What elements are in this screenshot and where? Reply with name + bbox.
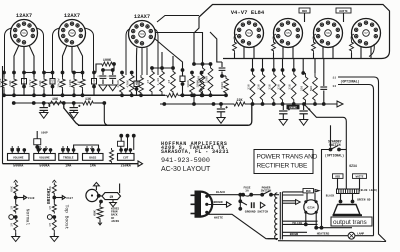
wire 22K rail right (247, 103, 337, 105)
wire switch to transformer (271, 194, 279, 196)
potentiometer TREBLE (59, 148, 78, 160)
svg-text:V4: V4 (247, 32, 251, 35)
ground cap b (109, 85, 117, 91)
wire standby right leg (339, 149, 346, 151)
capacitor electrolytic 16uF b (73, 103, 75, 107)
wire V5 plate lead (273, 53, 275, 59)
wire GZ34 feed diagonal (304, 104, 343, 117)
wire tube pin drop slant left (14, 46, 19, 73)
svg-text:GZ34: GZ34 (307, 207, 314, 210)
capacitor electrolytic 16uF c (220, 104, 222, 108)
wire ac vertical link (239, 195, 241, 209)
resistor 68K vib bold (97, 205, 103, 221)
wire bus2 link (64, 102, 81, 104)
svg-text:(OPTIONAL): (OPTIONAL) (325, 154, 344, 158)
wire 220K top link (194, 63, 211, 65)
svg-text:330: 330 (256, 84, 260, 90)
wire run RED to rectifier (282, 191, 303, 193)
ground vib jack up arrow (93, 182, 99, 186)
wire heater bus labeled (282, 235, 374, 237)
svg-text:100P: 100P (41, 132, 48, 135)
capacitor right (323, 59, 325, 87)
resistor grid 68K (14, 183, 18, 196)
svg-text:LAMP: LAMP (357, 232, 364, 235)
svg-text:10K: 10K (52, 98, 59, 102)
arrow pot feed (66, 148, 69, 150)
wire tube left hook (5, 28, 13, 73)
resistor 1M/2 (33, 73, 35, 78)
tube V2 12AX7 socket (59, 20, 86, 47)
wire V3 plate feed (156, 33, 203, 65)
potentiometer VOLUME normal (8, 148, 30, 160)
wire cut drops (120, 136, 122, 141)
node col6 top (51, 71, 55, 75)
node cut a (119, 134, 123, 138)
wire tube pin drop mid (71, 47, 73, 73)
resistor 330 screen (272, 68, 276, 72)
node 22K b (302, 102, 306, 106)
svg-text:500KA: 500KA (13, 165, 24, 169)
svg-text:330: 330 (299, 86, 303, 92)
svg-text:1M: 1M (48, 206, 52, 210)
node col5 bus (42, 93, 46, 97)
svg-text:1.5K: 1.5K (135, 81, 139, 89)
node enclosure lead (192, 62, 196, 66)
node bus2 d (62, 101, 66, 105)
resistor 330 right (303, 73, 308, 104)
resistor 470K (129, 73, 134, 96)
resistor 1.5K V3 (139, 75, 144, 95)
resistor 330 screen (281, 68, 285, 72)
wire tube pin drop slant right (29, 46, 34, 73)
jack tip contact (47, 215, 52, 220)
resistor grid stopper V6 (312, 40, 316, 53)
arrow feed to output (337, 101, 343, 107)
wire vib tip link (98, 195, 102, 198)
tube V6 EL84 socket (314, 19, 343, 48)
svg-text:820: 820 (23, 78, 26, 83)
svg-text:V4-V7 EL84: V4-V7 EL84 (231, 9, 265, 16)
wire V3 to box corner (157, 16, 199, 23)
wire link col pair b (44, 72, 53, 74)
capacitor electrolytic 16uF d (282, 104, 284, 110)
node ac a (238, 193, 242, 197)
node jack mid (14, 196, 18, 200)
label box WHITE bottom (353, 174, 367, 179)
wire vib drop (100, 202, 101, 206)
resistor 1M mixer a (150, 68, 155, 95)
wire jack gnd lead (53, 233, 55, 237)
node col8 bus (72, 93, 76, 97)
svg-text:250KA: 250KA (121, 165, 132, 169)
wire bright cap leads (36, 131, 38, 139)
resistor 330 screen (251, 68, 255, 72)
wire enclosure left lead (194, 17, 199, 64)
resistor 1M upper (14, 203, 18, 214)
svg-text:#137: #137 (66, 197, 73, 200)
node col7 bus (61, 93, 65, 97)
svg-text:12AX7: 12AX7 (134, 14, 150, 20)
wire mixer riser a (161, 52, 163, 68)
node heater a (314, 226, 318, 230)
svg-text:GREEN BD: GREEN BD (357, 199, 371, 202)
capacitor .1 col (102, 70, 104, 75)
svg-text:GROUND SWITCH: GROUND SWITCH (245, 211, 269, 214)
resistor 1M/2W (3, 73, 5, 78)
ground ecap e (299, 120, 307, 126)
resistor 1M (82, 73, 84, 78)
resistor 47K horiz (165, 93, 180, 97)
svg-text:68K: 68K (8, 80, 12, 86)
wire standby left leg (322, 150, 331, 184)
node 22K a (162, 102, 166, 106)
capacitor .1 col b (112, 70, 114, 75)
resistor grid stopper V7 (350, 40, 354, 53)
resistor 1M upper (52, 203, 56, 214)
capacitor .022 mid (182, 70, 184, 76)
potentiometer CUT (118, 148, 135, 160)
svg-text:.022: .022 (93, 78, 96, 85)
svg-text:500KA: 500KA (39, 165, 50, 169)
arrow pot feed (11, 148, 14, 150)
resistor 100K b (199, 73, 204, 96)
svg-text:BASS: BASS (89, 157, 96, 160)
svg-text:68K: 68K (48, 186, 52, 192)
svg-text:HEATERS: HEATERS (317, 232, 330, 235)
arrow red gz34 (315, 190, 319, 193)
node col4 top (32, 71, 36, 75)
svg-text:1M: 1M (146, 80, 150, 84)
svg-text:VOLUME: VOLUME (13, 157, 24, 160)
svg-text:1M: 1M (48, 223, 52, 227)
svg-text:100K: 100K (186, 80, 190, 88)
arrow pot feed (90, 148, 93, 150)
wire gz34 left leg to yellow (305, 212, 307, 224)
svg-text:1.8K: 1.8K (156, 78, 160, 86)
resistor 22K supply c (232, 102, 247, 106)
wire V3 left hook (126, 29, 130, 75)
node bus2 c (42, 101, 46, 105)
node jack mid (52, 196, 56, 200)
capacitor .022 (93, 73, 95, 79)
capacitor electrolytic 16uF a (43, 103, 45, 107)
node bus2 a (12, 101, 16, 105)
resistor cut series (110, 148, 114, 164)
wire screen feed stub (282, 59, 284, 71)
wire ac white run (209, 214, 279, 238)
svg-text:VOLUME: VOLUME (39, 157, 50, 160)
node bus2 e (72, 101, 76, 105)
arrow brown (227, 202, 232, 207)
node col9 top (81, 71, 85, 75)
wire 100K right drop (103, 64, 114, 70)
ground ecap a (40, 113, 48, 119)
wire treble-bass elbow (74, 145, 99, 150)
tube V1 12AX7 socket (11, 20, 38, 47)
svg-text:(OPTIONAL): (OPTIONAL) (340, 80, 359, 84)
svg-text:1M: 1M (167, 80, 171, 84)
node right col a (301, 71, 305, 75)
connector AC inlet (195, 191, 214, 218)
wire screen feed stub (262, 59, 264, 71)
node bus2 corner (102, 101, 106, 105)
svg-text:#138: #138 (28, 197, 35, 200)
wire right cols top (302, 59, 304, 74)
wire jack tap (53, 196, 55, 203)
wire white box drop (359, 178, 361, 189)
wire screen feed stub (293, 59, 295, 71)
node ot a (339, 200, 343, 204)
svg-text:50K: 50K (309, 86, 313, 92)
svg-text:220K: 220K (204, 76, 208, 84)
svg-text:1MA: 1MA (65, 165, 72, 169)
tube V4 EL84 socket (235, 19, 264, 48)
jack tip contact (9, 215, 14, 220)
wire box to phase cap (210, 32, 222, 62)
svg-text:1M/2W: 1M/2W (0, 78, 2, 87)
svg-text:RED: RED (335, 175, 340, 178)
wire tube left hook (53, 28, 61, 73)
tube V3 12AX7 socket (129, 21, 156, 48)
node yellow join (304, 223, 308, 227)
wire V3 right hook (154, 29, 158, 75)
wire ac brown stub (209, 204, 227, 206)
capacitor ground switch (251, 202, 253, 208)
resistor 1M/2W (62, 73, 64, 78)
label box RED gz34 (303, 189, 314, 193)
ground ecap b (70, 113, 78, 119)
label box RED above V6 (299, 8, 310, 13)
wire optional lower run (338, 85, 374, 236)
wire fuse to switch (251, 194, 262, 196)
svg-text:.1: .1 (106, 75, 110, 79)
node ac b (238, 199, 242, 203)
svg-text:BROWN: BROWN (290, 233, 299, 236)
wire bus3 riser (64, 103, 79, 125)
svg-text:.022: .022 (52, 78, 55, 85)
jack vib channel (86, 189, 98, 201)
wire GZ34 feed corner (343, 117, 346, 190)
svg-text:V3: V3 (140, 33, 144, 36)
svg-text:V2: V2 (70, 32, 74, 35)
node cut b (126, 134, 130, 138)
svg-text:1M: 1M (10, 223, 14, 227)
resistor 1M lower (14, 217, 18, 233)
arrow ground switch (260, 202, 265, 208)
resistor 1M lower (52, 217, 56, 233)
svg-text:330: 330 (246, 84, 250, 90)
svg-text:V6: V6 (326, 32, 330, 35)
svg-text:SARASOTA, FL - 34231: SARASOTA, FL - 34231 (161, 149, 229, 155)
svg-text:330: 330 (276, 84, 280, 90)
svg-text:12AX7: 12AX7 (64, 13, 80, 19)
resistor 13K supply b (81, 101, 95, 105)
svg-text:941-923-5900: 941-923-5900 (161, 157, 210, 165)
arrow pot feed (61, 148, 64, 150)
wire standby feed from rail (330, 125, 332, 147)
capacitor cut .047 (118, 141, 125, 146)
svg-text:V7: V7 (364, 32, 368, 35)
wire V5 cathode lead (292, 47, 294, 59)
node col7 top (61, 71, 65, 75)
label box WHITE above V7 (336, 8, 351, 13)
wire mixer riser b (172, 56, 174, 68)
box output trans label (331, 217, 372, 226)
svg-text:AC-30 LAYOUT: AC-30 LAYOUT (161, 166, 211, 173)
resistor grid stopper V4 (233, 40, 237, 53)
wire red box drop (337, 178, 339, 189)
potentiometer VOLUME top boost (34, 148, 56, 160)
lamp pilot (348, 232, 355, 239)
wire vib right riser (119, 184, 121, 194)
capacitor .022 (52, 73, 54, 79)
wire V4 plate lead (234, 53, 236, 59)
svg-text:V1: V1 (22, 32, 26, 35)
wire V7 right curve (369, 44, 374, 57)
node col9 bus (81, 93, 85, 97)
resistor 220K tall b (208, 64, 213, 95)
resistor 68K (13, 73, 15, 78)
capacitor .022 V3 (136, 75, 138, 81)
arrow vib below 1M (110, 203, 117, 207)
ground jack (50, 237, 58, 242)
wire bus1 main ground rail right (180, 94, 227, 96)
switch ground lever (240, 201, 247, 205)
svg-text:V5: V5 (286, 32, 290, 35)
svg-text:1M: 1M (10, 206, 14, 210)
wire tube pin drop mid (23, 47, 25, 73)
wire link col pair a (24, 72, 34, 74)
wire V6 plate lead (313, 53, 315, 59)
transformer power core (279, 192, 281, 240)
resistor 10K supply a (46, 101, 64, 105)
wire V7 plate lead (351, 53, 353, 59)
node col10 top (92, 71, 96, 75)
resistor 100K phase (224, 76, 229, 95)
arrow board bottom (138, 161, 143, 166)
svg-text:RECTIFIER TUBE: RECTIFIER TUBE (257, 163, 308, 170)
wire bus3 corner up to rail (248, 104, 252, 125)
resistor 1.8K (160, 68, 165, 95)
wire link col pair c (74, 72, 83, 74)
wire bus2 corner drop (104, 103, 109, 125)
wire jack tap (15, 196, 17, 203)
svg-text:100K: 100K (220, 82, 224, 90)
resistor 1M mixer b (171, 68, 176, 95)
svg-text:Normal: Normal (25, 209, 31, 226)
svg-text:3A: 3A (245, 190, 249, 193)
wire jack link (52, 216, 54, 218)
svg-text:JACKS: JACKS (111, 220, 119, 223)
pins AC inlet (205, 195, 208, 198)
wire ac hot (209, 194, 241, 196)
tube V7 EL84 socket (352, 19, 381, 48)
wire bus3 long rail (78, 124, 248, 126)
node bus2 b (32, 101, 36, 105)
wire screen feed stub (273, 59, 275, 71)
resistor 50K right (313, 73, 318, 104)
node cap mid (181, 68, 185, 72)
wire V7 pin leads (360, 46, 362, 59)
transformer output laminations (337, 189, 360, 194)
node col8 top (72, 71, 76, 75)
svg-text:1M: 1M (109, 195, 113, 199)
svg-text:13K: 13K (85, 98, 92, 102)
wire V3 pin drops (136, 48, 138, 76)
node ot b (351, 200, 355, 204)
label box RED bottom (333, 174, 344, 179)
node vib b (99, 200, 103, 204)
ground jack (12, 237, 20, 242)
svg-text:Top Boost: Top Boost (63, 205, 69, 230)
svg-text:1M/2: 1M/2 (28, 79, 32, 87)
svg-text:BLACK: BLACK (216, 191, 225, 194)
capacitor 820 (23, 73, 25, 79)
box POWER TRANS AND RECTIFIER TUBE (254, 150, 313, 174)
resistor 100K a (190, 73, 195, 96)
wire tube pin drop slant right (77, 46, 82, 73)
svg-text:BLACK: BLACK (326, 195, 335, 198)
wire V6 pin leads (322, 46, 324, 59)
wire optional upper run (338, 77, 386, 241)
label CHOKE bar (287, 105, 300, 110)
wire WHITE label to V7 (343, 13, 345, 22)
power tube enclosure outline (199, 5, 390, 59)
resistor 68K (43, 73, 45, 78)
svg-text:14: 14 (332, 85, 336, 88)
arrow pot feed (38, 148, 41, 150)
svg-text:11: 11 (332, 77, 336, 80)
ground ecap d (279, 120, 287, 126)
svg-text:RED: RED (306, 190, 311, 193)
svg-text:CHOKE: CHOKE (289, 106, 297, 109)
switch standby (329, 148, 333, 152)
svg-text:.1: .1 (97, 75, 101, 79)
wire tube pin drop slant left (63, 46, 67, 73)
resistor 330 screen (261, 68, 265, 72)
svg-text:CUT: CUT (123, 157, 128, 160)
arrow pot feed (17, 148, 20, 150)
wire tube right hook (36, 28, 44, 73)
node jack sleeve (14, 215, 18, 219)
node col2 bus (12, 93, 16, 97)
wire V3 diag to coupling cap (154, 38, 183, 70)
node cap mid bus (181, 93, 185, 97)
node 100K right (112, 62, 116, 66)
resistor 100K coupling (100, 62, 114, 66)
svg-text:WHITE: WHITE (339, 10, 348, 13)
wire supply riser (193, 95, 195, 104)
node col4 bus (32, 93, 36, 97)
svg-text:100K: 100K (103, 59, 112, 63)
transformer output bell (334, 205, 361, 215)
svg-text:68K: 68K (38, 80, 42, 86)
wire jack chain top (52, 180, 56, 182)
wire 100K left (96, 64, 100, 73)
wire run HV to rectifier plate (282, 200, 295, 202)
wire 22K rail left (160, 103, 232, 105)
svg-text:470K: 470K (126, 80, 130, 88)
node ecap c (219, 102, 223, 106)
svg-text:POWER TRANS AND: POWER TRANS AND (257, 154, 318, 161)
svg-text:220K: 220K (116, 80, 120, 88)
svg-text:220K: 220K (196, 76, 200, 84)
potentiometer BASS (83, 148, 104, 160)
svg-text:68K: 68K (10, 186, 14, 192)
wire V4 cathode lead (253, 47, 255, 59)
svg-text:100K: 100K (68, 79, 72, 87)
svg-text:22K: 22K (236, 99, 243, 103)
